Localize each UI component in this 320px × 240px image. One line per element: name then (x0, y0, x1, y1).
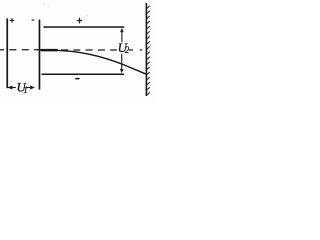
accelerating plate left (cathode) (6, 18, 8, 88)
accelerating plate right (anode) (39, 20, 41, 90)
screen wall (146, 3, 148, 96)
U2 dimension arrow upper (120, 28, 124, 42)
deflection plate bottom (42, 74, 125, 76)
beam/dash overlap blob at deflection entrance (41, 49, 59, 52)
minus label on bottom deflection plate (75, 78, 80, 80)
background (0, 0, 156, 103)
U1 dimension arrow between accelerating plates (8, 86, 35, 90)
plus label on left accelerating plate (10, 18, 15, 23)
U2 dimension arrow lower (120, 54, 124, 73)
deflection plate top (43, 26, 124, 28)
screen wall hatching (147, 6, 150, 96)
minus label on right accelerating plate (32, 20, 35, 21)
svg-text:2: 2 (125, 45, 130, 55)
scan noise specks (44, 3, 88, 16)
svg-text:1: 1 (23, 85, 28, 95)
plus label on top deflection plate (77, 18, 82, 24)
electron trajectory (41, 50, 146, 74)
dashed beam axis (0, 49, 142, 51)
